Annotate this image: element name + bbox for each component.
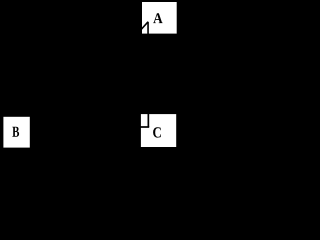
label A — [153, 13, 162, 23]
side CB (horizontal) fragment in box C — [140, 126, 150, 128]
vertex label box C — [141, 114, 176, 147]
side AB (hypotenuse) fragment in box A — [141, 22, 148, 30]
label B — [12, 127, 19, 137]
side AC (vertical) fragment in box C — [147, 112, 149, 127]
vertex label box A — [142, 2, 177, 34]
vertex label box B — [3, 117, 29, 148]
label C — [153, 127, 161, 137]
side AC (vertical) fragment in box A — [147, 22, 149, 36]
